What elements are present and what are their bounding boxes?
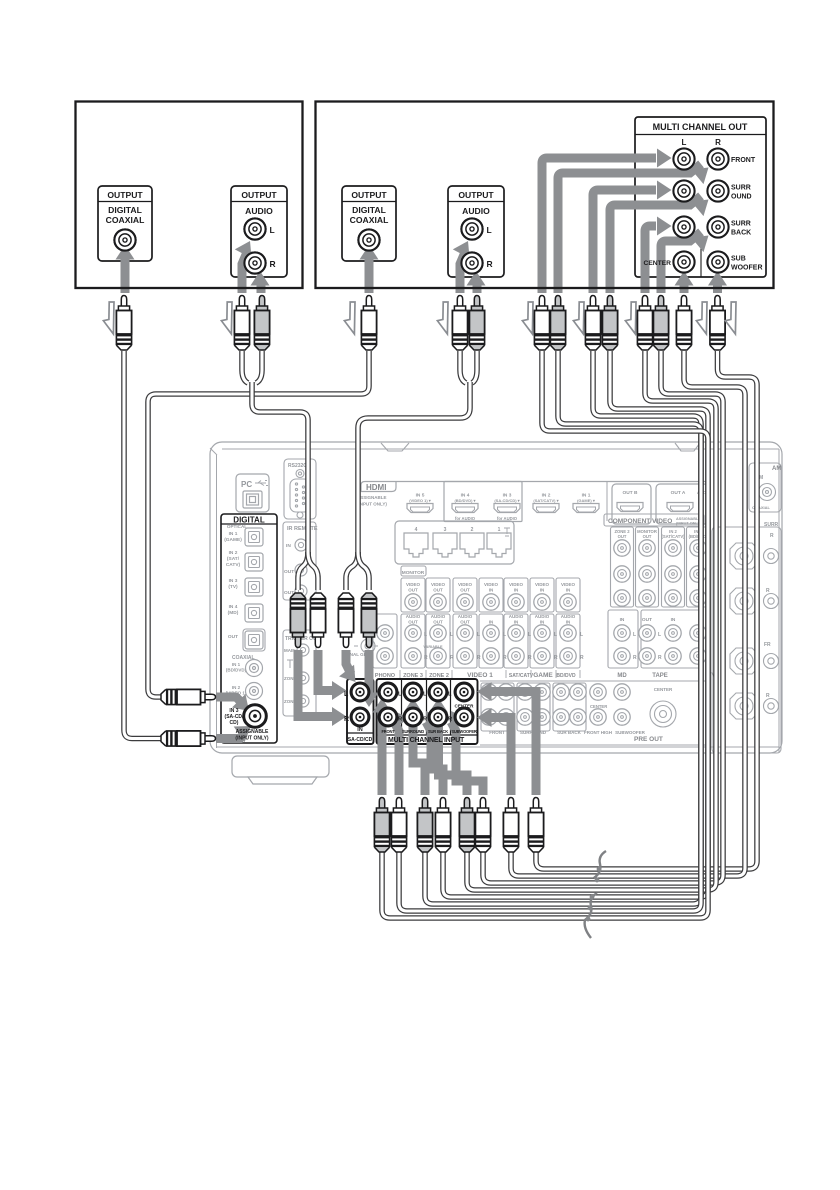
cable break marks — [585, 851, 606, 938]
svg-text:OUT: OUT — [618, 534, 627, 539]
RCA plugs — [116, 296, 131, 351]
OUTPUT AUDIO panel — [448, 186, 504, 277]
wire audio2 L lead — [460, 351, 466, 383]
svg-text:BD/DVD: BD/DVD — [556, 673, 576, 679]
wire audio2 trunk — [358, 382, 470, 556]
svg-text:(SAT/: (SAT/ — [227, 556, 240, 562]
svg-text:(GAME): (GAME) — [224, 537, 242, 543]
svg-text:R: R — [766, 693, 770, 699]
wire audio1 split R — [308, 552, 318, 590]
svg-text:IN 1: IN 1 — [229, 531, 238, 537]
svg-text:VIDEO: VIDEO — [431, 582, 446, 587]
svg-text:OUT: OUT — [460, 588, 470, 593]
receiver foot — [232, 756, 329, 784]
box1 grey arrows — [125, 250, 261, 293]
svg-text:CENTER: CENTER — [644, 260, 672, 267]
svg-text:AUDIO: AUDIO — [431, 614, 446, 619]
svg-text:IR REMOTE: IR REMOTE — [287, 526, 318, 532]
svg-text:TAPE: TAPE — [652, 673, 668, 679]
svg-text:SUBWOOFER: SUBWOOFER — [615, 730, 645, 735]
svg-text:FRONT: FRONT — [381, 729, 395, 734]
OUTPUT DIGITAL COAXIAL panel — [342, 186, 396, 261]
svg-text:OUT A: OUT A — [671, 490, 686, 496]
svg-text:AUDIO: AUDIO — [406, 614, 421, 619]
svg-text:ASSIGNABLE: ASSIGNABLE — [236, 729, 269, 735]
DIGITAL section (bold) — [221, 514, 277, 743]
wire multi channel FRONT R — [399, 351, 701, 911]
arrowheads — [332, 707, 347, 726]
svg-text:OUT: OUT — [228, 634, 238, 640]
RS232C port — [284, 459, 316, 519]
svg-text:(SA-CD/CD) ▾: (SA-CD/CD) ▾ — [494, 498, 520, 503]
OUTPUT DIGITAL COAXIAL panel — [98, 186, 152, 261]
svg-text:SURR: SURR — [731, 221, 751, 228]
svg-text:WOOFER: WOOFER — [731, 265, 763, 272]
svg-text:MULTI CHANNEL OUT: MULTI CHANNEL OUT — [653, 122, 748, 132]
MULTI CH INPUT SUR BACK jacks — [429, 683, 447, 701]
MULTI CH INPUT SUBWOOFER jacks — [455, 683, 473, 701]
svg-text:(BD/DVD) ▾: (BD/DVD) ▾ — [454, 498, 476, 503]
svg-text:DIGITAL: DIGITAL — [352, 205, 386, 215]
svg-text:IN 3: IN 3 — [229, 578, 238, 584]
svg-text:for AUDIO: for AUDIO — [455, 516, 476, 521]
svg-text:CD): CD) — [230, 720, 239, 726]
svg-text:VIDEO: VIDEO — [535, 582, 550, 587]
svg-text:IN: IN — [671, 617, 676, 623]
svg-text:IN: IN — [566, 588, 571, 593]
MD TAPE jacks — [608, 610, 716, 679]
svg-text:R: R — [715, 138, 721, 147]
svg-text:CENTER: CENTER — [455, 704, 475, 709]
svg-text:FR: FR — [764, 642, 771, 648]
wire audio1 R lead — [256, 351, 262, 383]
wire coax box2 to IN3 upper — [148, 351, 369, 697]
svg-text:SUR BACK: SUR BACK — [428, 729, 448, 734]
SA-CD/CD IN R jack — [351, 708, 369, 726]
grey connection arrows — [216, 650, 536, 795]
svg-text:VIDEO: VIDEO — [509, 582, 524, 587]
svg-text:IN: IN — [489, 588, 494, 593]
wire multi channel CENTER — [511, 351, 745, 876]
svg-text:AUDIO: AUDIO — [462, 206, 490, 216]
svg-text:CENTER: CENTER — [654, 687, 673, 692]
svg-text:R: R — [450, 655, 454, 661]
svg-text:MD: MD — [617, 673, 627, 679]
svg-text:PRE OUT: PRE OUT — [634, 736, 663, 743]
MULTI CHANNEL INPUT section (bold boxes) — [347, 679, 478, 744]
svg-text:SUR BACK: SUR BACK — [557, 730, 582, 735]
svg-text:FRONT: FRONT — [489, 730, 505, 735]
COMPONENT VIDEO section — [604, 514, 710, 607]
svg-text:SAT/CATV: SAT/CATV — [509, 673, 534, 679]
svg-text:L: L — [270, 225, 275, 235]
svg-text:L: L — [344, 691, 349, 698]
svg-text:R: R — [424, 655, 428, 661]
svg-text:IN 1: IN 1 — [232, 662, 241, 667]
MULTI CHANNEL OUT panel — [635, 117, 766, 277]
svg-text:SURROUND: SURROUND — [402, 729, 424, 734]
IR REMOTE jacks — [283, 522, 318, 600]
svg-text:FRONT HIGH: FRONT HIGH — [584, 730, 612, 735]
MULTI CH INPUT SURROUND jacks — [404, 683, 422, 701]
svg-text:L: L — [580, 632, 583, 638]
svg-text:OUTPUT: OUTPUT — [458, 190, 494, 200]
svg-text:3: 3 — [444, 527, 447, 533]
svg-text:(INPUT ONLY): (INPUT ONLY) — [357, 502, 387, 507]
svg-text:(INPUT ONLY): (INPUT ONLY) — [235, 736, 268, 742]
SA-CD/CD IN L jack — [351, 683, 369, 701]
svg-text:L: L — [477, 632, 480, 638]
PRE OUT section — [480, 681, 706, 745]
svg-text:COMPONENT VIDEO: COMPONENT VIDEO — [608, 518, 672, 525]
AV jack grid — [371, 566, 584, 679]
PC USB port — [236, 474, 269, 512]
svg-text:OUND: OUND — [731, 194, 752, 201]
SIGNAL GND terminal — [342, 639, 378, 657]
svg-text:OUTPUT: OUTPUT — [241, 190, 277, 200]
svg-text:R: R — [477, 655, 481, 661]
wire multi channel SURR BACK R — [483, 351, 723, 883]
svg-text:RS232C: RS232C — [288, 463, 307, 469]
svg-text:OUTPUT: OUTPUT — [107, 190, 143, 200]
svg-text:IN: IN — [286, 543, 291, 549]
svg-text:ASSIGNABLE: ASSIGNABLE — [357, 495, 387, 500]
wire multi channel SURROUND L — [425, 351, 701, 904]
svg-text:L: L — [682, 138, 687, 147]
svg-text:R: R — [344, 716, 349, 723]
wire audio1 split L — [298, 552, 308, 590]
svg-text:(SAT/CATV): (SAT/CATV) — [661, 534, 685, 539]
svg-text:AUDIO: AUDIO — [535, 614, 550, 619]
svg-text:R: R — [580, 655, 584, 661]
svg-text:CENTER: CENTER — [590, 704, 607, 709]
svg-text:R: R — [270, 259, 276, 269]
svg-text:R: R — [658, 655, 662, 661]
svg-text:AUDIO: AUDIO — [458, 614, 473, 619]
svg-text:OUT: OUT — [433, 620, 443, 625]
svg-text:VIDEO: VIDEO — [484, 582, 499, 587]
svg-text:OUT: OUT — [642, 617, 652, 623]
svg-text:OUT B: OUT B — [623, 490, 638, 496]
svg-text:L: L — [423, 692, 427, 698]
svg-text:FRONT: FRONT — [731, 157, 756, 164]
OUTPUT AUDIO panel — [231, 186, 287, 277]
svg-text:L: L — [487, 225, 492, 235]
svg-text:R: R — [633, 655, 637, 661]
svg-text:COAXIAL: COAXIAL — [106, 215, 145, 225]
svg-text:R: R — [766, 588, 770, 594]
svg-text:4: 4 — [415, 527, 418, 533]
svg-text:IN 2: IN 2 — [229, 550, 238, 556]
svg-text:IN: IN — [489, 620, 494, 625]
svg-text:OUT: OUT — [433, 588, 443, 593]
svg-text:DIGITAL: DIGITAL — [108, 205, 142, 215]
insertion arrows — [103, 302, 114, 334]
svg-text:L: L — [448, 692, 452, 698]
svg-text:IN: IN — [540, 588, 545, 593]
svg-text:MONITOR: MONITOR — [402, 570, 425, 576]
svg-text:2: 2 — [471, 527, 474, 533]
IN 3 SA-CD/CD coaxial jack (bold) — [244, 705, 267, 728]
svg-text:VIDEO: VIDEO — [561, 582, 576, 587]
link ports — [395, 521, 514, 564]
svg-text:(TV): (TV) — [228, 584, 238, 590]
wire multi channel SURR BACK L — [467, 351, 716, 890]
svg-text:SUB: SUB — [731, 256, 746, 263]
svg-text:SURR: SURR — [731, 185, 751, 192]
svg-text:(BD/DVD): (BD/DVD) — [226, 668, 247, 673]
svg-text:AUDIO: AUDIO — [509, 614, 524, 619]
svg-text:AUDIO: AUDIO — [245, 206, 273, 216]
svg-text:VIDEO: VIDEO — [406, 582, 421, 587]
svg-text:SA-CD/CD: SA-CD/CD — [348, 737, 373, 743]
svg-text:MULTI CHANNEL INPUT: MULTI CHANNEL INPUT — [388, 737, 465, 744]
wire multi channel SUBWOOFER — [536, 351, 757, 869]
svg-text:CATV): CATV) — [226, 562, 241, 568]
svg-text:R: R — [770, 533, 774, 539]
wire multi channel SURROUND R — [443, 351, 708, 897]
svg-text:PC: PC — [241, 480, 252, 489]
wire coax box1 to IN3 lower — [124, 351, 162, 739]
svg-text:HDMI: HDMI — [366, 483, 386, 492]
svg-text:VIDEO: VIDEO — [458, 582, 473, 587]
svg-text:L: L — [554, 632, 557, 638]
wire audio1 L lead — [242, 351, 248, 383]
wire audio2 split L — [346, 552, 358, 590]
svg-text:L: L — [633, 632, 636, 638]
svg-text:L: L — [503, 632, 506, 638]
svg-text:for AUDIO: for AUDIO — [497, 516, 518, 521]
svg-text:OUT: OUT — [408, 620, 418, 625]
svg-text:OUTPUT: OUTPUT — [351, 190, 387, 200]
svg-text:GAME: GAME — [533, 672, 553, 679]
HDMI section — [357, 482, 710, 525]
svg-text:IN: IN — [566, 620, 571, 625]
svg-text:L: L — [424, 632, 427, 638]
svg-text:R: R — [503, 655, 507, 661]
svg-text:R: R — [528, 655, 532, 661]
svg-text:VIDEO 1: VIDEO 1 — [467, 672, 493, 679]
svg-text:IN: IN — [620, 617, 625, 623]
svg-text:COAXIAL: COAXIAL — [350, 215, 389, 225]
MULTI CH INPUT FRONT jacks — [379, 683, 397, 701]
svg-text:L: L — [398, 692, 402, 698]
svg-text:(INPUT ONLY): (INPUT ONLY) — [676, 522, 702, 526]
svg-text:IN 4: IN 4 — [229, 604, 238, 610]
wire audio1 trunk — [252, 382, 308, 556]
svg-text:VARIABLE: VARIABLE — [423, 645, 443, 649]
antenna section — [749, 463, 781, 512]
svg-text:(GAME) ▾: (GAME) ▾ — [577, 498, 596, 503]
svg-text:SUBWOOFER: SUBWOOFER — [451, 729, 477, 734]
speaker terminals — [712, 522, 781, 753]
svg-text:ASSIGNABLE: ASSIGNABLE — [676, 517, 701, 521]
svg-text:AUDIO: AUDIO — [561, 614, 576, 619]
svg-text:IN: IN — [357, 727, 363, 733]
svg-text:IN 2: IN 2 — [232, 685, 241, 690]
svg-text:OPTICAL: OPTICAL — [227, 524, 247, 529]
svg-text:BACK: BACK — [731, 230, 751, 237]
svg-text:SURR: SURR — [764, 522, 779, 528]
svg-text:(VIDEO 1) ▾: (VIDEO 1) ▾ — [409, 498, 432, 503]
svg-text:IN: IN — [514, 620, 519, 625]
wire audio2 R lead — [472, 351, 477, 383]
wire audio2 split R — [358, 552, 369, 590]
svg-text:(SAT/CATV) ▾: (SAT/CATV) ▾ — [533, 498, 559, 503]
svg-text:IN: IN — [540, 620, 545, 625]
svg-text:R: R — [487, 259, 493, 269]
svg-text:IN: IN — [514, 588, 519, 593]
receiver rear panel — [210, 442, 782, 753]
svg-text:L: L — [450, 632, 453, 638]
svg-text:OUT: OUT — [460, 620, 470, 625]
svg-text:1: 1 — [498, 527, 501, 533]
svg-text:L: L — [658, 632, 661, 638]
svg-text:R: R — [554, 655, 558, 661]
svg-text:L: L — [528, 632, 531, 638]
svg-text:OUT: OUT — [408, 588, 418, 593]
svg-text:AM: AM — [772, 466, 781, 472]
wire multi channel FRONT L — [382, 351, 708, 918]
TRIGGER OUT jacks — [283, 630, 320, 716]
svg-text:OUT: OUT — [643, 534, 652, 539]
svg-text:(MD): (MD) — [228, 610, 239, 616]
